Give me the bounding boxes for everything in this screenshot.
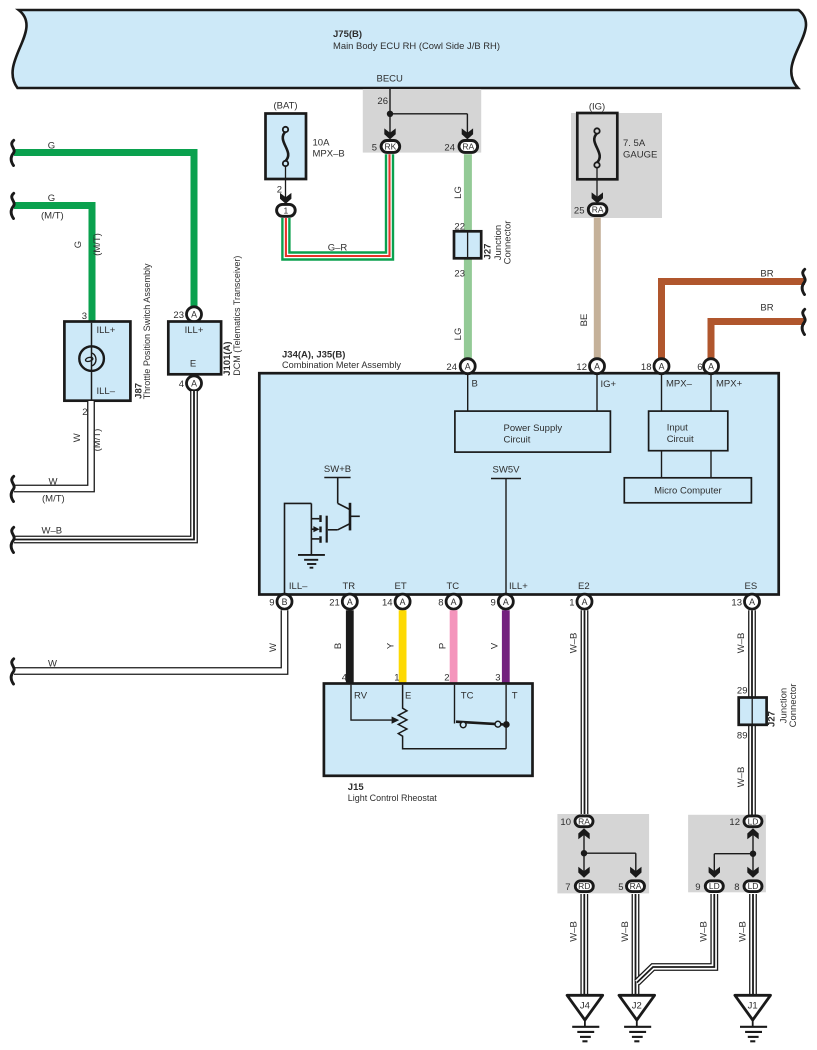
- junction dot: [387, 111, 393, 117]
- svg-text:Micro Computer: Micro Computer: [654, 486, 722, 497]
- svg-text:RA: RA: [592, 205, 604, 215]
- svg-text:ILL–: ILL–: [289, 581, 308, 592]
- svg-text:W–B: W–B: [738, 921, 749, 942]
- svg-text:(M/T): (M/T): [42, 494, 65, 505]
- svg-text:BR: BR: [760, 269, 773, 280]
- squiggle BR2: [802, 309, 805, 334]
- wire P (TC): [438, 610, 454, 684]
- svg-text:9: 9: [491, 597, 496, 608]
- svg-text:ILL+: ILL+: [185, 325, 204, 336]
- svg-text:W–B: W–B: [699, 921, 710, 942]
- svg-text:7: 7: [565, 882, 570, 893]
- svg-text:Y: Y: [386, 642, 397, 649]
- svg-text:Light Control Rheostat: Light Control Rheostat: [348, 793, 437, 804]
- terminal 7 RD: [565, 881, 593, 893]
- svg-text:ILL+: ILL+: [509, 581, 528, 592]
- wire BR (to MPX-): [662, 269, 806, 360]
- svg-text:(M/T): (M/T): [41, 211, 64, 222]
- svg-text:LD: LD: [709, 881, 720, 891]
- terminal 23 A (DCM): [173, 307, 201, 322]
- combination meter assembly J34(A) J35(B): [259, 350, 778, 595]
- svg-text:9: 9: [269, 597, 274, 608]
- svg-text:26: 26: [377, 96, 388, 107]
- svg-text:23: 23: [173, 310, 184, 321]
- svg-text:5: 5: [618, 882, 623, 893]
- terminal 8 LD: [734, 881, 762, 893]
- wire G-R: [286, 154, 390, 256]
- svg-text:P: P: [438, 643, 449, 649]
- svg-text:RA: RA: [578, 816, 590, 826]
- ground J2: [619, 995, 655, 1041]
- terminal 9 A (ILL+): [491, 594, 514, 609]
- arrow into RA: [462, 128, 473, 139]
- svg-text:14: 14: [382, 597, 393, 608]
- svg-text:12: 12: [729, 817, 740, 828]
- terminal 8 A (TC): [438, 594, 461, 609]
- svg-text:A: A: [594, 362, 600, 372]
- svg-text:TC: TC: [447, 581, 460, 592]
- internal wire B: [468, 375, 478, 412]
- resistor zigzag: [398, 685, 506, 749]
- terminal 4 A (DCM): [179, 376, 202, 391]
- svg-text:W–B: W–B: [569, 921, 580, 942]
- wire B (TR): [333, 610, 350, 684]
- internal wire IG+: [597, 375, 617, 412]
- svg-text:W–B: W–B: [736, 633, 747, 654]
- svg-text:1: 1: [284, 205, 289, 215]
- node SW+B: [324, 464, 351, 478]
- svg-text:W: W: [72, 433, 83, 442]
- svg-text:ET: ET: [395, 581, 407, 592]
- svg-text:J27: J27: [483, 244, 494, 260]
- ground J4: [567, 995, 603, 1041]
- wire W (from ILL-): [14, 610, 285, 671]
- svg-text:J75(B): J75(B): [333, 29, 362, 40]
- svg-text:8: 8: [734, 882, 739, 893]
- svg-text:12: 12: [576, 362, 587, 373]
- svg-text:(IG): (IG): [589, 102, 605, 113]
- svg-text:V: V: [490, 642, 501, 649]
- relay block gray (LD): [688, 815, 766, 893]
- svg-text:ILL–: ILL–: [97, 386, 116, 397]
- svg-text:J15: J15: [348, 782, 365, 793]
- svg-text:Circuit: Circuit: [504, 435, 531, 446]
- internal wire MPX+: [711, 375, 743, 412]
- rheostat wiper arm: [351, 685, 399, 724]
- terminal 9 B (ILL-): [269, 594, 292, 609]
- DCM J101(A) box: [168, 256, 243, 376]
- svg-text:Circuit: Circuit: [667, 434, 694, 445]
- svg-text:W: W: [49, 477, 58, 488]
- svg-text:MPX–: MPX–: [666, 379, 693, 390]
- squiggle BR1: [802, 269, 805, 294]
- svg-text:ES: ES: [745, 581, 758, 592]
- svg-text:A: A: [465, 362, 471, 372]
- terminal 18 A (meter MPX-): [641, 359, 669, 374]
- junction dot: [750, 851, 756, 857]
- wire W-B (RA5 to J2): [620, 894, 636, 996]
- svg-text:13: 13: [731, 597, 742, 608]
- svg-text:W: W: [268, 643, 279, 652]
- svg-text:G: G: [48, 141, 55, 152]
- squiggle W-B left: [11, 527, 14, 552]
- ground J1: [735, 995, 771, 1041]
- wire W (M/T): [14, 401, 103, 505]
- svg-text:(M/T): (M/T): [92, 233, 103, 256]
- svg-text:SW5V: SW5V: [493, 465, 521, 476]
- input circuit box: [649, 411, 728, 451]
- svg-text:RA: RA: [462, 142, 474, 152]
- svg-text:LG: LG: [453, 328, 464, 341]
- terminal 1 A (E2): [569, 594, 592, 609]
- arrow into 5 RA: [630, 867, 641, 878]
- arrow into 25 RA: [592, 192, 603, 203]
- svg-text:A: A: [400, 597, 406, 607]
- svg-text:G: G: [73, 241, 84, 248]
- wire W-B (from DCM): [14, 391, 194, 540]
- svg-text:7. 5A: 7. 5A: [623, 138, 646, 149]
- svg-text:(M/T): (M/T): [92, 429, 103, 452]
- svg-text:B: B: [333, 643, 344, 649]
- terminal 5 RK: [372, 141, 400, 154]
- svg-text:GAUGE: GAUGE: [623, 150, 657, 161]
- svg-text:24: 24: [446, 362, 457, 373]
- svg-text:8: 8: [438, 597, 443, 608]
- svg-text:3: 3: [495, 673, 500, 684]
- svg-text:2: 2: [444, 673, 449, 684]
- wire W-B (E2): [569, 610, 585, 816]
- svg-text:BR: BR: [760, 303, 773, 314]
- svg-text:W–B: W–B: [569, 633, 580, 654]
- switch TC-T: [455, 685, 510, 749]
- svg-text:E: E: [190, 359, 196, 370]
- svg-text:10: 10: [560, 817, 571, 828]
- squiggle W: [11, 659, 14, 684]
- svg-text:E: E: [405, 691, 411, 702]
- svg-text:J2: J2: [632, 1001, 642, 1012]
- svg-text:6: 6: [697, 362, 702, 373]
- BECU gray block: [363, 89, 481, 153]
- terminal 9 LD: [695, 881, 723, 893]
- throttle position switch J87: [64, 263, 153, 418]
- svg-text:W–B: W–B: [620, 921, 631, 942]
- svg-text:A: A: [708, 362, 714, 372]
- svg-text:LD: LD: [748, 816, 759, 826]
- svg-text:Connector: Connector: [503, 221, 514, 265]
- svg-text:Input: Input: [667, 423, 688, 434]
- svg-text:LG: LG: [453, 186, 464, 199]
- svg-text:Connector: Connector: [788, 684, 799, 728]
- svg-text:10A: 10A: [313, 138, 331, 149]
- svg-text:MPX+: MPX+: [716, 379, 743, 390]
- svg-text:Throttle Position Switch Assem: Throttle Position Switch Assembly: [142, 263, 153, 399]
- svg-text:RD: RD: [578, 881, 590, 891]
- arrow into 7 RD: [578, 867, 589, 878]
- svg-text:A: A: [191, 379, 197, 389]
- terminal 5 RA: [618, 881, 644, 893]
- svg-text:W–B: W–B: [736, 767, 747, 788]
- micro computer box: [624, 478, 751, 503]
- svg-text:Main Body ECU RH (Cowl Side J/: Main Body ECU RH (Cowl Side J/B RH): [333, 41, 500, 52]
- svg-text:W–B: W–B: [42, 526, 63, 537]
- wire G (to DCM): [14, 141, 194, 308]
- internal wire MPX-: [662, 375, 693, 412]
- svg-text:A: A: [659, 362, 665, 372]
- terminal 21 A (TR): [329, 594, 357, 609]
- terminal 25 RA: [574, 204, 607, 217]
- junction connector J27 (29/89): [737, 684, 799, 742]
- wire Y (ET): [386, 610, 403, 684]
- transistor Q (output driver): [311, 478, 359, 556]
- power supply circuit box: [455, 411, 611, 452]
- light control rheostat J15: [324, 684, 533, 805]
- squiggle W(M/T): [11, 476, 14, 501]
- svg-text:18: 18: [641, 362, 652, 373]
- svg-text:G–R: G–R: [328, 243, 348, 254]
- svg-text:J4: J4: [580, 1001, 590, 1012]
- svg-text:BECU: BECU: [377, 74, 404, 85]
- svg-text:4: 4: [342, 673, 347, 684]
- svg-text:29: 29: [737, 686, 748, 697]
- svg-text:A: A: [749, 597, 755, 607]
- svg-text:LD: LD: [748, 881, 759, 891]
- svg-text:IG+: IG+: [601, 379, 617, 390]
- wire W-B (RD7 to J4): [569, 894, 585, 996]
- svg-text:A: A: [582, 597, 588, 607]
- svg-text:B: B: [282, 597, 288, 607]
- svg-text:24: 24: [444, 142, 455, 153]
- node SW5V: [491, 465, 521, 479]
- fuse 7.5A GAUGE (IG): [571, 102, 662, 219]
- svg-text:5: 5: [372, 142, 377, 153]
- ECU banner J75(B): [13, 10, 806, 88]
- internal wire SW5V to ILL+: [505, 479, 507, 595]
- svg-text:DCM (Telematics Transceiver): DCM (Telematics Transceiver): [232, 256, 243, 376]
- svg-text:B: B: [472, 379, 478, 390]
- arrow into connector 1: [280, 193, 291, 204]
- squiggle G2: [11, 193, 14, 218]
- svg-text:25: 25: [574, 206, 585, 217]
- svg-text:E2: E2: [578, 581, 590, 592]
- wire W-B (LD8 to J1): [738, 894, 754, 996]
- junction connector J27 (22/23): [454, 221, 514, 280]
- svg-text:SW+B: SW+B: [324, 464, 351, 475]
- svg-text:89: 89: [737, 731, 748, 742]
- svg-text:1: 1: [394, 673, 399, 684]
- svg-text:RK: RK: [384, 142, 396, 152]
- bulb symbol: [79, 323, 104, 400]
- arrow into 9 LD: [709, 867, 720, 878]
- svg-text:23: 23: [454, 269, 465, 280]
- wire to junction: [714, 835, 753, 873]
- wires input to micro computer: [661, 451, 663, 478]
- svg-text:1: 1: [569, 597, 574, 608]
- svg-text:2: 2: [82, 407, 87, 418]
- svg-text:W: W: [48, 659, 57, 670]
- svg-text:T: T: [512, 691, 518, 702]
- svg-text:J1: J1: [748, 1001, 758, 1012]
- arrow up into 10 RA: [578, 828, 589, 839]
- svg-text:A: A: [347, 597, 353, 607]
- svg-text:A: A: [451, 597, 457, 607]
- terminal 10 RA: [560, 816, 593, 828]
- wire G (M/T) (to J87): [14, 193, 103, 322]
- wire to junction: [584, 835, 636, 873]
- svg-text:9: 9: [695, 882, 700, 893]
- squiggle G1: [11, 140, 14, 165]
- terminal 13 A (ES): [731, 594, 759, 609]
- arrow into 8 LD: [747, 867, 758, 878]
- svg-text:A: A: [191, 310, 197, 320]
- wire W-B (ES): [736, 610, 752, 816]
- svg-text:Power Supply: Power Supply: [504, 423, 563, 434]
- svg-text:BE: BE: [579, 314, 590, 327]
- svg-text:(BAT): (BAT): [273, 101, 297, 112]
- svg-text:J27: J27: [767, 711, 778, 727]
- svg-text:TC: TC: [461, 691, 474, 702]
- terminal 24 RA: [444, 141, 477, 154]
- svg-text:G: G: [48, 193, 55, 204]
- svg-text:4: 4: [179, 379, 184, 390]
- internal wire ILL- to gate: [285, 503, 312, 594]
- svg-text:Combination Meter Assembly: Combination Meter Assembly: [282, 360, 401, 371]
- fuse 10A MPX-B (BAT): [266, 101, 345, 199]
- junction dot: [581, 850, 587, 856]
- svg-text:RA: RA: [630, 881, 642, 891]
- wire BE: [579, 218, 597, 360]
- terminal 12 LD: [729, 816, 762, 828]
- relay block gray (RA/RD): [557, 814, 649, 893]
- wire from BECU: [390, 88, 467, 134]
- svg-text:ILL+: ILL+: [97, 325, 116, 336]
- arrow up into 12 LD: [747, 828, 758, 839]
- terminal 14 A (ET): [382, 594, 410, 609]
- ground (internal): [298, 555, 325, 568]
- terminal 24 A (meter B): [446, 359, 475, 374]
- terminal 6 A (meter MPX+): [697, 359, 718, 374]
- svg-text:J34(A), J35(B): J34(A), J35(B): [282, 350, 345, 361]
- wire V (ILL+): [490, 610, 506, 684]
- terminal 12 A (meter IG+): [576, 359, 604, 374]
- wire LG: [453, 154, 468, 359]
- svg-text:RV: RV: [354, 691, 368, 702]
- arrow into RK: [384, 128, 395, 139]
- wire BR (to MPX+): [711, 303, 805, 360]
- svg-text:TR: TR: [343, 581, 356, 592]
- svg-text:21: 21: [329, 597, 340, 608]
- svg-text:A: A: [503, 597, 509, 607]
- wire W-B (LD9 to J2): [637, 894, 714, 983]
- svg-text:MPX–B: MPX–B: [313, 149, 345, 160]
- connector 1: [277, 204, 296, 216]
